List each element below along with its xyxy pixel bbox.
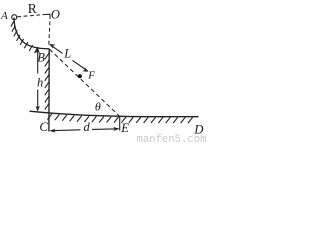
vertical wall line (48, 49, 50, 132)
svg-text:O: O (51, 8, 60, 22)
tick at E (119, 116, 121, 130)
dashed radius line R (17, 14, 46, 16)
pin ring at point A (12, 15, 17, 20)
dimension h down arrowhead (36, 106, 40, 112)
dimension d right segment (92, 128, 119, 131)
dimension h up arrowhead (36, 47, 40, 53)
dimension L upper arrowhead (49, 44, 55, 48)
dimension L lower arrowhead (82, 67, 88, 71)
ground hatching (47, 114, 192, 123)
svg-text:E: E (120, 121, 129, 135)
corner elbow at O (46, 14, 50, 19)
hatching on curved wall (11, 21, 38, 53)
dimension L lower segment (73, 60, 88, 71)
dimension d left arrowhead (49, 129, 55, 133)
dimension h upper segment (37, 49, 39, 73)
ball at F (78, 74, 82, 78)
dimension d left segment (51, 129, 81, 132)
svg-text:A: A (0, 10, 8, 22)
svg-text:h: h (37, 76, 43, 90)
svg-text:C: C (39, 119, 48, 134)
svg-text:L: L (63, 47, 71, 61)
dimension d right arrowhead (113, 127, 119, 131)
svg-text:d: d (84, 120, 91, 134)
dimension L upper segment (50, 45, 63, 54)
dimension h lower segment (37, 90, 39, 111)
dashed string B-E (50, 49, 120, 116)
svg-text:R: R (28, 1, 37, 16)
svg-text:B: B (37, 50, 45, 64)
ground line (30, 111, 199, 117)
dashed vertical line O-B (49, 22, 50, 48)
hatching on vertical wall (45, 53, 49, 110)
curved wall arc (14, 18, 49, 49)
svg-text:θ: θ (95, 99, 101, 113)
svg-text:F: F (87, 70, 95, 82)
svg-text:manfen5.com: manfen5.com (137, 134, 207, 143)
